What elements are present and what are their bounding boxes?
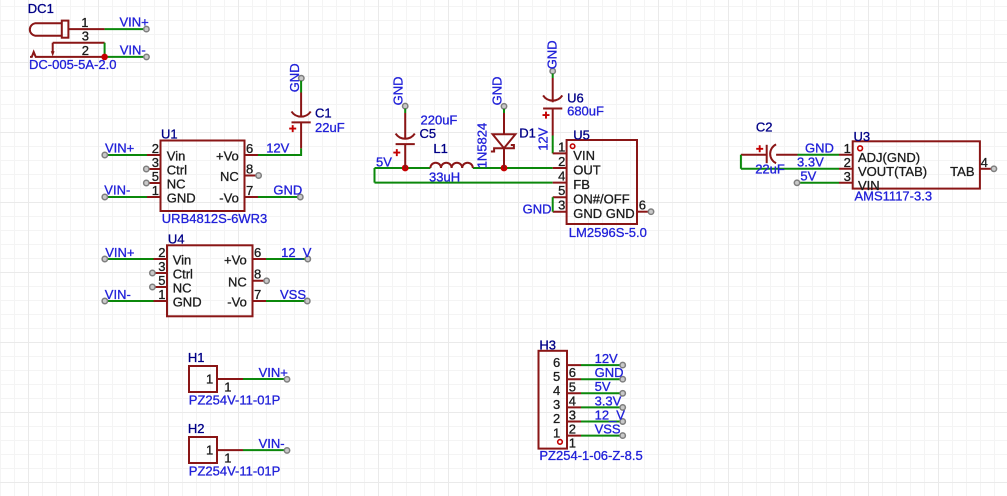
svg-text:GND: GND (805, 141, 834, 156)
svg-text:2: 2 (553, 411, 560, 426)
svg-text:1: 1 (206, 442, 213, 457)
svg-text:220uF: 220uF (421, 112, 458, 127)
svg-text:C5: C5 (420, 126, 437, 141)
svg-text:1: 1 (158, 287, 165, 302)
svg-text:URB4812S-6WR3: URB4812S-6WR3 (162, 211, 267, 226)
svg-text:ADJ(GND): ADJ(GND) (858, 150, 920, 165)
svg-text:3: 3 (158, 259, 165, 274)
svg-text:PZ254V-11-01P: PZ254V-11-01P (189, 393, 281, 408)
svg-text:H1: H1 (188, 350, 205, 365)
svg-text:3.3V: 3.3V (595, 393, 622, 408)
svg-text:DC-005-5A-2.0: DC-005-5A-2.0 (29, 57, 116, 72)
svg-text:3: 3 (152, 155, 159, 170)
svg-text:GND GND: GND GND (573, 206, 634, 221)
svg-text:8: 8 (254, 267, 261, 282)
svg-text:NC: NC (167, 177, 186, 192)
svg-text:22uF: 22uF (315, 120, 345, 135)
svg-text:2: 2 (844, 155, 851, 170)
svg-text:4: 4 (558, 169, 565, 184)
svg-text:+Vo: +Vo (216, 149, 239, 164)
svg-text:3: 3 (82, 29, 89, 44)
svg-text:4: 4 (553, 383, 560, 398)
svg-text:NC: NC (173, 281, 192, 296)
svg-text:22uF: 22uF (755, 161, 785, 176)
svg-text:1: 1 (569, 436, 576, 451)
svg-text:+Vo: +Vo (224, 253, 247, 268)
svg-text:8: 8 (246, 161, 253, 176)
svg-text:PZ254-1-06-Z-8.5: PZ254-1-06-Z-8.5 (539, 448, 642, 463)
svg-text:5V: 5V (800, 169, 816, 184)
svg-text:3: 3 (844, 169, 851, 184)
svg-text:VIN+: VIN+ (259, 365, 288, 380)
svg-text:2: 2 (569, 422, 576, 437)
svg-text:VIN: VIN (573, 148, 595, 163)
svg-text:680uF: 680uF (567, 104, 604, 119)
svg-text:VIN-: VIN- (120, 42, 146, 57)
svg-text:5V: 5V (376, 154, 392, 169)
svg-text:12_V: 12_V (281, 245, 312, 260)
svg-text:Ctrl: Ctrl (167, 163, 187, 178)
svg-text:7: 7 (246, 183, 253, 198)
svg-text:VIN: VIN (858, 178, 880, 193)
svg-text:1: 1 (558, 139, 565, 154)
svg-text:VIN-: VIN- (105, 287, 131, 302)
svg-text:D1: D1 (519, 126, 536, 141)
svg-text:5: 5 (569, 379, 576, 394)
svg-text:4: 4 (981, 155, 988, 170)
svg-text:U4: U4 (168, 232, 185, 247)
svg-text:1N5824: 1N5824 (475, 123, 490, 169)
svg-text:3.3V: 3.3V (797, 155, 824, 170)
svg-text:GND: GND (595, 365, 624, 380)
svg-text:2: 2 (558, 154, 565, 169)
svg-text:1: 1 (152, 183, 159, 198)
svg-text:C1: C1 (315, 105, 332, 120)
svg-text:5: 5 (152, 169, 159, 184)
svg-text:VIN+: VIN+ (120, 15, 149, 30)
svg-text:12V: 12V (595, 351, 618, 366)
svg-text:GND: GND (287, 63, 302, 92)
svg-text:C2: C2 (756, 120, 773, 135)
svg-text:VIN+: VIN+ (105, 245, 134, 260)
svg-text:OUT: OUT (573, 162, 601, 177)
svg-text:ON#/OFF: ON#/OFF (573, 192, 629, 207)
svg-text:PZ254V-11-01P: PZ254V-11-01P (189, 463, 281, 478)
svg-text:NC: NC (220, 169, 239, 184)
svg-text:VSS: VSS (280, 287, 306, 302)
svg-text:7: 7 (254, 287, 261, 302)
svg-text:3: 3 (553, 397, 560, 412)
svg-text:VIN-: VIN- (104, 183, 130, 198)
svg-text:GND: GND (490, 77, 505, 106)
svg-text:6: 6 (639, 198, 646, 213)
svg-text:1: 1 (553, 425, 560, 440)
svg-text:-Vo: -Vo (219, 191, 239, 206)
svg-text:12V: 12V (535, 127, 550, 150)
svg-text:4: 4 (569, 393, 576, 408)
svg-text:NC: NC (228, 274, 247, 289)
svg-text:VIN-: VIN- (259, 436, 285, 451)
svg-text:FB: FB (573, 177, 590, 192)
svg-text:GND: GND (173, 295, 202, 310)
svg-text:VOUT(TAB): VOUT(TAB) (858, 164, 927, 179)
svg-text:VIN+: VIN+ (105, 141, 134, 156)
svg-text:5: 5 (158, 273, 165, 288)
svg-text:5V: 5V (595, 379, 611, 394)
svg-text:L1: L1 (433, 141, 447, 156)
svg-text:LM2596S-5.0: LM2596S-5.0 (569, 225, 647, 240)
svg-text:GND: GND (391, 77, 406, 106)
svg-text:3: 3 (558, 198, 565, 213)
svg-text:2: 2 (82, 43, 89, 58)
svg-text:TAB: TAB (950, 164, 974, 179)
svg-text:Vin: Vin (167, 149, 186, 164)
svg-text:2: 2 (158, 245, 165, 260)
svg-text:H3: H3 (539, 338, 556, 353)
svg-text:DC1: DC1 (28, 1, 54, 16)
svg-text:-Vo: -Vo (227, 295, 247, 310)
svg-text:U3: U3 (854, 129, 871, 144)
svg-text:12V: 12V (266, 141, 289, 156)
svg-text:6: 6 (569, 365, 576, 380)
svg-text:H2: H2 (188, 421, 205, 436)
svg-text:2: 2 (152, 141, 159, 156)
svg-text:GND: GND (544, 40, 559, 69)
svg-text:VSS: VSS (595, 422, 621, 437)
svg-text:GND: GND (523, 201, 552, 216)
svg-text:33uH: 33uH (429, 169, 460, 184)
svg-text:12_V: 12_V (595, 407, 626, 422)
svg-text:6: 6 (254, 245, 261, 260)
svg-text:Vin: Vin (173, 253, 192, 268)
svg-text:U1: U1 (161, 126, 178, 141)
svg-text:5: 5 (553, 369, 560, 384)
svg-text:U5: U5 (573, 128, 590, 143)
svg-text:3: 3 (569, 408, 576, 423)
svg-text:GND: GND (273, 183, 302, 198)
svg-text:6: 6 (553, 355, 560, 370)
svg-text:1: 1 (844, 141, 851, 156)
svg-text:1: 1 (206, 371, 213, 386)
svg-text:Ctrl: Ctrl (173, 267, 193, 282)
svg-text:GND: GND (167, 191, 196, 206)
svg-text:5: 5 (558, 183, 565, 198)
svg-text:6: 6 (246, 141, 253, 156)
